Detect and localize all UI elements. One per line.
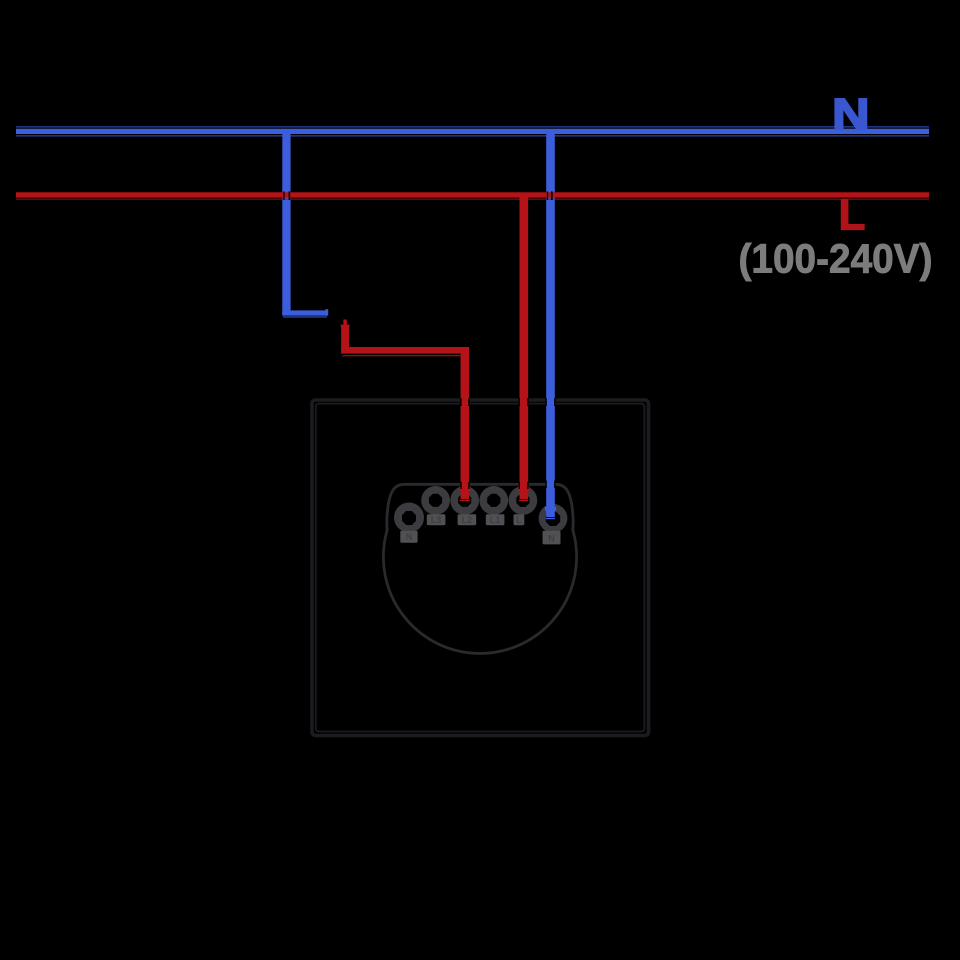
label N: [543, 531, 561, 545]
svg-text:L2: L2: [462, 515, 473, 525]
svg-text:N: N: [406, 532, 413, 542]
label plate left terminal: [400, 514, 560, 544]
wire crossover ticks at plate edge x live drop: [519, 398, 520, 406]
wire crossover ticks at module cap x switched live: [460, 482, 461, 489]
wire neutral drop to wall switch loop: [282, 131, 290, 316]
switch wall-plate outer box: [312, 400, 649, 736]
svg-text:N: N: [832, 90, 869, 139]
wire neutral drop to terminal N: [546, 131, 555, 517]
terminal L (live): [509, 486, 538, 515]
wire crossover ticks at module cap x neutral drop: [545, 481, 546, 489]
label L3: [427, 514, 446, 525]
label L: [514, 514, 525, 525]
svg-text:L: L: [839, 191, 866, 240]
wire crossover ticks at plate edge x neutral drop: [545, 398, 546, 406]
svg-text:L3: L3: [431, 515, 442, 525]
wire crossover ticks at module cap x live drop: [519, 482, 520, 489]
terminal screw hole left (mounting): [394, 503, 424, 533]
terminal L1: [479, 486, 508, 515]
wire live drop to terminal L: [520, 193, 529, 499]
terminal N (neutral): [539, 504, 568, 533]
wire L bus (live, horizontal): [16, 192, 929, 197]
net label N: [832, 90, 869, 139]
terminal L2: [450, 486, 479, 515]
wire crossover ticks at plate edge x switched live: [460, 398, 461, 406]
wire crossover ticks at L bus x neutral drop: [547, 191, 548, 200]
svg-text:L1: L1: [490, 515, 501, 525]
label L2: [458, 514, 477, 525]
wire switched live return (arrow from wall switch): [343, 320, 346, 326]
svg-text:(100-240V): (100-240V): [739, 236, 933, 282]
wire N bus (neutral, horizontal): [16, 126, 929, 127]
wire neutral chevron into terminal N: [545, 507, 556, 514]
wire crossover ticks at L bus x switch-loop drop: [283, 191, 284, 200]
svg-text:L: L: [516, 515, 522, 525]
label L1: [486, 514, 505, 525]
switch module body outline: [383, 484, 576, 653]
svg-text:N: N: [548, 533, 555, 543]
terminal L3: [421, 486, 450, 515]
